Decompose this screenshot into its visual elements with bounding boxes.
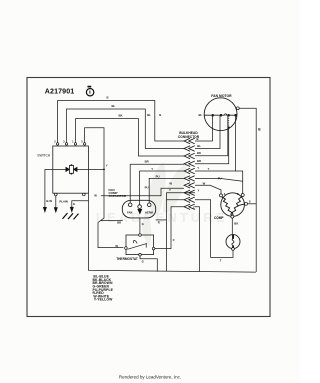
- svg-text:BR: BR: [197, 159, 201, 163]
- svg-text:Y-YELLOW: Y-YELLOW: [94, 298, 113, 302]
- junction dot at fuse tee: [103, 169, 105, 171]
- svg-text:W: W: [169, 181, 172, 185]
- svg-text:FAN: FAN: [127, 211, 132, 215]
- fan/comp capacitor: [122, 200, 155, 218]
- svg-text:PU: PU: [156, 174, 160, 178]
- svg-text:5: 5: [81, 140, 83, 144]
- svg-text:PU: PU: [218, 177, 222, 181]
- row10 to thermostat right: [155, 207, 184, 249]
- row9 to overload loop: [195, 200, 233, 258]
- arrow B-W: [43, 207, 47, 213]
- svg-text:PU: PU: [145, 185, 149, 189]
- svg-text:BK: BK: [234, 222, 238, 226]
- svg-text:BL: BL: [147, 113, 151, 117]
- ground wire from switch box corner: [72, 193, 89, 207]
- svg-text:BK: BK: [197, 151, 201, 155]
- comp windings: [222, 196, 245, 215]
- wire BK: switch terminal3: [76, 119, 185, 156]
- timer symbol: [86, 87, 93, 96]
- svg-text:Y: Y: [208, 167, 210, 171]
- svg-text:SWITCH: SWITCH: [37, 154, 51, 158]
- svg-text:B-W: B-W: [46, 199, 52, 203]
- arrow PLAIN: [55, 196, 57, 208]
- svg-text:PLAIN: PLAIN: [59, 200, 67, 204]
- svg-text:W: W: [115, 244, 118, 248]
- motor internal line and terminals: [204, 114, 237, 116]
- fuse vertical down to thermostat left: [98, 169, 123, 247]
- motor dashed winding wire: [228, 115, 230, 126]
- svg-text:G: G: [142, 222, 144, 226]
- fuse wire horizontal: [45, 168, 104, 170]
- row8 Y wire to bottom: [167, 193, 196, 272]
- svg-text:A217901: A217901: [45, 87, 75, 95]
- wire W to bulkhead row7: [101, 188, 184, 196]
- svg-text:BR: BR: [145, 160, 149, 164]
- arrow G to ground: [70, 207, 74, 213]
- svg-text:3: 3: [63, 140, 65, 144]
- motor wire4 tee + row5 to comp drop: [234, 115, 236, 171]
- wire to fuse line: switch terminal4: [85, 128, 104, 170]
- fuse component: [66, 164, 77, 174]
- svg-text:Rendered by LeadVenture, Inc.: Rendered by LeadVenture, Inc.: [119, 374, 181, 379]
- motor right terminal to B vertical: [239, 108, 256, 272]
- W wire row7 to comp top-left: [195, 185, 221, 194]
- svg-text:2: 2: [54, 140, 56, 144]
- bulkhead chevrons x10: [184, 138, 195, 209]
- compressor: [221, 193, 245, 217]
- svg-text:Y: Y: [151, 167, 153, 171]
- motor dashed-dot wire to row4: [195, 127, 229, 163]
- comp right terminal link: [246, 203, 256, 205]
- svg-text:Y: Y: [106, 163, 108, 167]
- svg-text:C: C: [193, 205, 195, 209]
- svg-text:COMP: COMP: [214, 216, 224, 220]
- svg-text:THERMOSTAT: THERMOSTAT: [116, 257, 138, 261]
- thermostat: [126, 235, 154, 255]
- row10 right wire down to bottom: [195, 207, 200, 272]
- cap right wire tee: [156, 219, 167, 221]
- cap bottom wire to thermostat: [139, 218, 141, 235]
- motor wire3 to row3: [195, 115, 228, 156]
- svg-text:BK: BK: [117, 220, 121, 224]
- switch box: [53, 146, 89, 193]
- svg-text:B: B: [258, 127, 261, 131]
- svg-text:BK: BK: [119, 114, 123, 118]
- switch top terminals: [55, 143, 86, 196]
- wire color legend: [93, 275, 114, 302]
- svg-text:C: C: [173, 238, 175, 242]
- wire drop B-W arrow: [44, 169, 46, 207]
- svg-text:S: S: [249, 199, 251, 203]
- motor right terminal: [236, 107, 239, 110]
- svg-text:Y: Y: [197, 166, 199, 170]
- svg-text:CAPACITOR: CAPACITOR: [109, 194, 127, 198]
- svg-text:1: 1: [72, 140, 74, 144]
- svg-text:B: B: [159, 113, 161, 117]
- svg-text:B: B: [197, 137, 199, 141]
- terminal number labels: [54, 140, 83, 144]
- svg-text:G: G: [73, 202, 75, 206]
- svg-text:BL: BL: [112, 104, 116, 108]
- svg-text:BL: BL: [197, 144, 201, 148]
- chassis ground: [63, 213, 79, 219]
- svg-text:W: W: [94, 193, 97, 197]
- svg-text:W: W: [203, 181, 206, 185]
- cap FAN wire up to row4: [130, 164, 184, 203]
- watermark leaf: [142, 162, 186, 245]
- capacitor left wire BK: [101, 220, 123, 222]
- svg-text:B: B: [107, 96, 109, 100]
- svg-text:R: R: [158, 220, 160, 224]
- border frame: [27, 78, 270, 317]
- svg-text:Y: Y: [169, 188, 171, 192]
- motor wire2 to row2: [195, 115, 220, 148]
- svg-text:LEADVENTURE: LEADVENTURE: [96, 210, 228, 225]
- overload protector: [226, 235, 240, 249]
- PU wire row6: [195, 178, 243, 181]
- row9 left wire: [167, 199, 185, 201]
- svg-text:BL: BL: [199, 113, 203, 117]
- svg-text:Y: Y: [198, 188, 200, 192]
- comp bottom wire: [231, 218, 233, 234]
- thermostat bottom wire: [140, 256, 157, 272]
- wire BL: switch terminal2: [67, 109, 185, 149]
- cap HERM wire up to row6: [149, 178, 184, 203]
- svg-text:T: T: [220, 258, 222, 262]
- svg-text:FAN MOTOR: FAN MOTOR: [211, 94, 232, 98]
- motor wire1 to row1: [195, 115, 213, 141]
- svg-text:HERM: HERM: [145, 211, 154, 215]
- bottom long wire: [88, 201, 256, 272]
- wire B: switch terminal1 up, across top, down, to bulkhead row1: [58, 101, 184, 143]
- cap COM wire up to row5: [140, 171, 184, 205]
- svg-text:G: G: [142, 260, 144, 264]
